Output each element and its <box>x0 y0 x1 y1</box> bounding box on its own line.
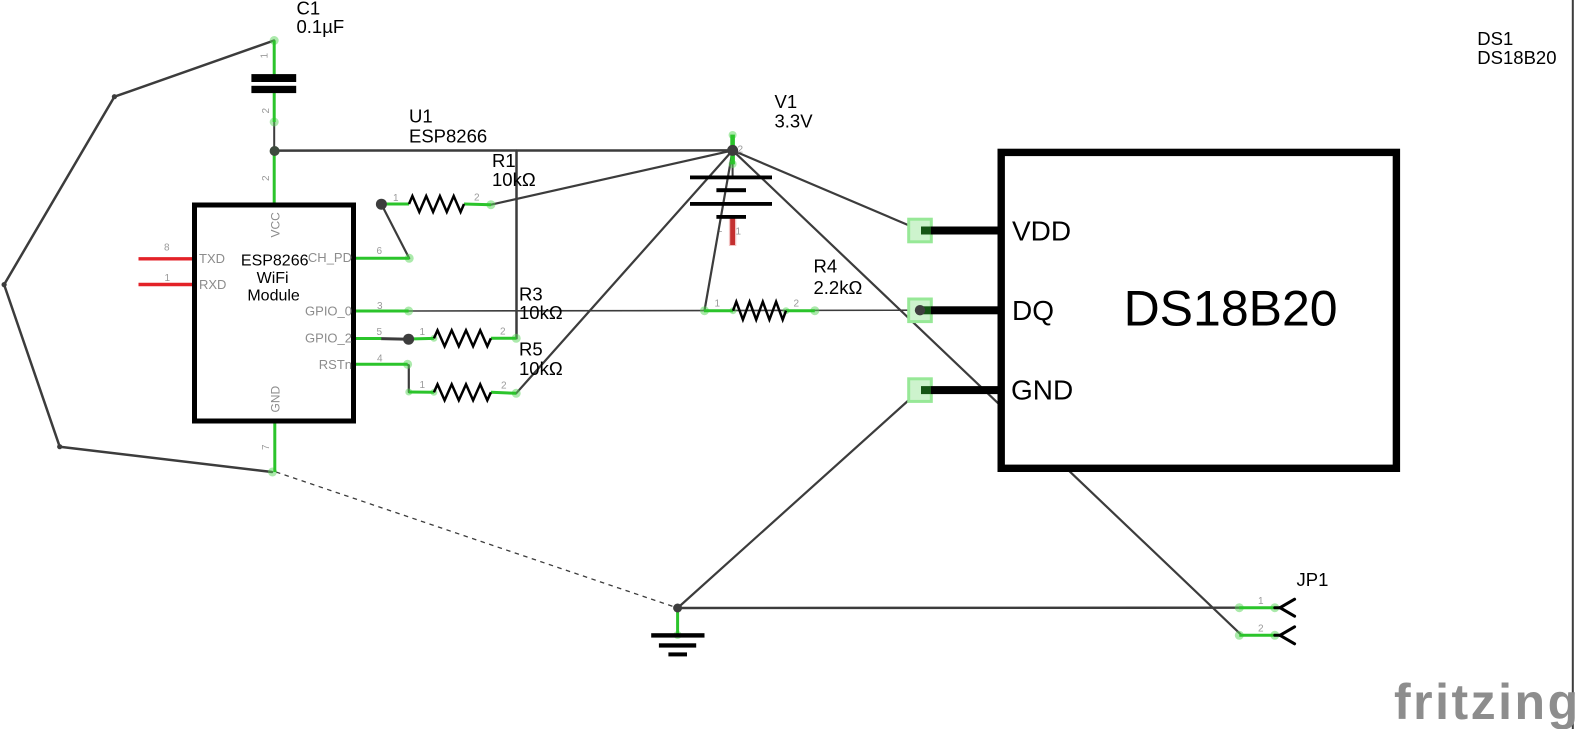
svg-text:1: 1 <box>420 380 426 391</box>
svg-text:1: 1 <box>715 299 721 310</box>
svg-text:2: 2 <box>474 193 480 204</box>
svg-text:fritzing: fritzing <box>1394 674 1575 729</box>
svg-text:10kΩ: 10kΩ <box>519 358 563 379</box>
svg-text:U1: U1 <box>409 106 433 127</box>
svg-text:ESP8266: ESP8266 <box>409 125 487 146</box>
svg-text:R4: R4 <box>814 256 838 277</box>
svg-text:1: 1 <box>393 193 399 204</box>
svg-text:JP1: JP1 <box>1297 569 1329 590</box>
svg-text:CH_PD: CH_PD <box>308 250 352 265</box>
svg-text:5: 5 <box>377 327 383 338</box>
svg-text:2: 2 <box>501 381 507 392</box>
svg-text:RSTn: RSTn <box>319 357 352 372</box>
svg-text:4: 4 <box>377 354 383 365</box>
svg-text:R1: R1 <box>492 150 516 171</box>
svg-text:ESP8266: ESP8266 <box>241 253 309 270</box>
svg-text:2: 2 <box>500 327 506 338</box>
svg-text:GPIO_0: GPIO_0 <box>305 304 352 319</box>
svg-text:10kΩ: 10kΩ <box>519 302 563 323</box>
svg-text:8: 8 <box>164 243 170 254</box>
svg-text:GND: GND <box>269 386 283 413</box>
svg-text:VDD: VDD <box>1012 216 1071 247</box>
svg-text:2.2kΩ: 2.2kΩ <box>814 277 863 298</box>
svg-text:1: 1 <box>260 53 271 59</box>
svg-text:2: 2 <box>1258 624 1264 635</box>
svg-text:V1: V1 <box>775 91 798 112</box>
svg-text:2: 2 <box>261 175 272 181</box>
svg-text:3.3V: 3.3V <box>775 111 814 132</box>
svg-text:1: 1 <box>165 273 171 284</box>
svg-text:DS18B20: DS18B20 <box>1477 47 1556 68</box>
svg-text:2: 2 <box>261 108 272 114</box>
svg-text:-: - <box>719 227 722 238</box>
svg-text:1: 1 <box>420 327 426 338</box>
svg-text:3: 3 <box>377 301 383 312</box>
svg-text:Module: Module <box>247 288 300 305</box>
svg-text:7: 7 <box>261 444 272 450</box>
svg-text:TXD: TXD <box>199 251 225 266</box>
svg-text:VCC: VCC <box>268 212 282 238</box>
svg-text:WiFi: WiFi <box>257 270 289 287</box>
svg-text:6: 6 <box>377 246 383 257</box>
svg-text:2: 2 <box>794 299 800 310</box>
svg-text:1: 1 <box>736 227 742 238</box>
svg-text:R5: R5 <box>519 339 543 360</box>
svg-text:RXD: RXD <box>199 277 226 292</box>
svg-text:GND: GND <box>1011 375 1073 406</box>
svg-text:0.1µF: 0.1µF <box>297 16 345 37</box>
svg-text:GPIO_2: GPIO_2 <box>305 331 352 346</box>
svg-text:1: 1 <box>1258 596 1264 607</box>
svg-text:DS18B20: DS18B20 <box>1124 281 1338 337</box>
svg-text:2: 2 <box>738 145 744 156</box>
svg-text:DQ: DQ <box>1012 295 1054 326</box>
svg-text:10kΩ: 10kΩ <box>492 169 536 190</box>
